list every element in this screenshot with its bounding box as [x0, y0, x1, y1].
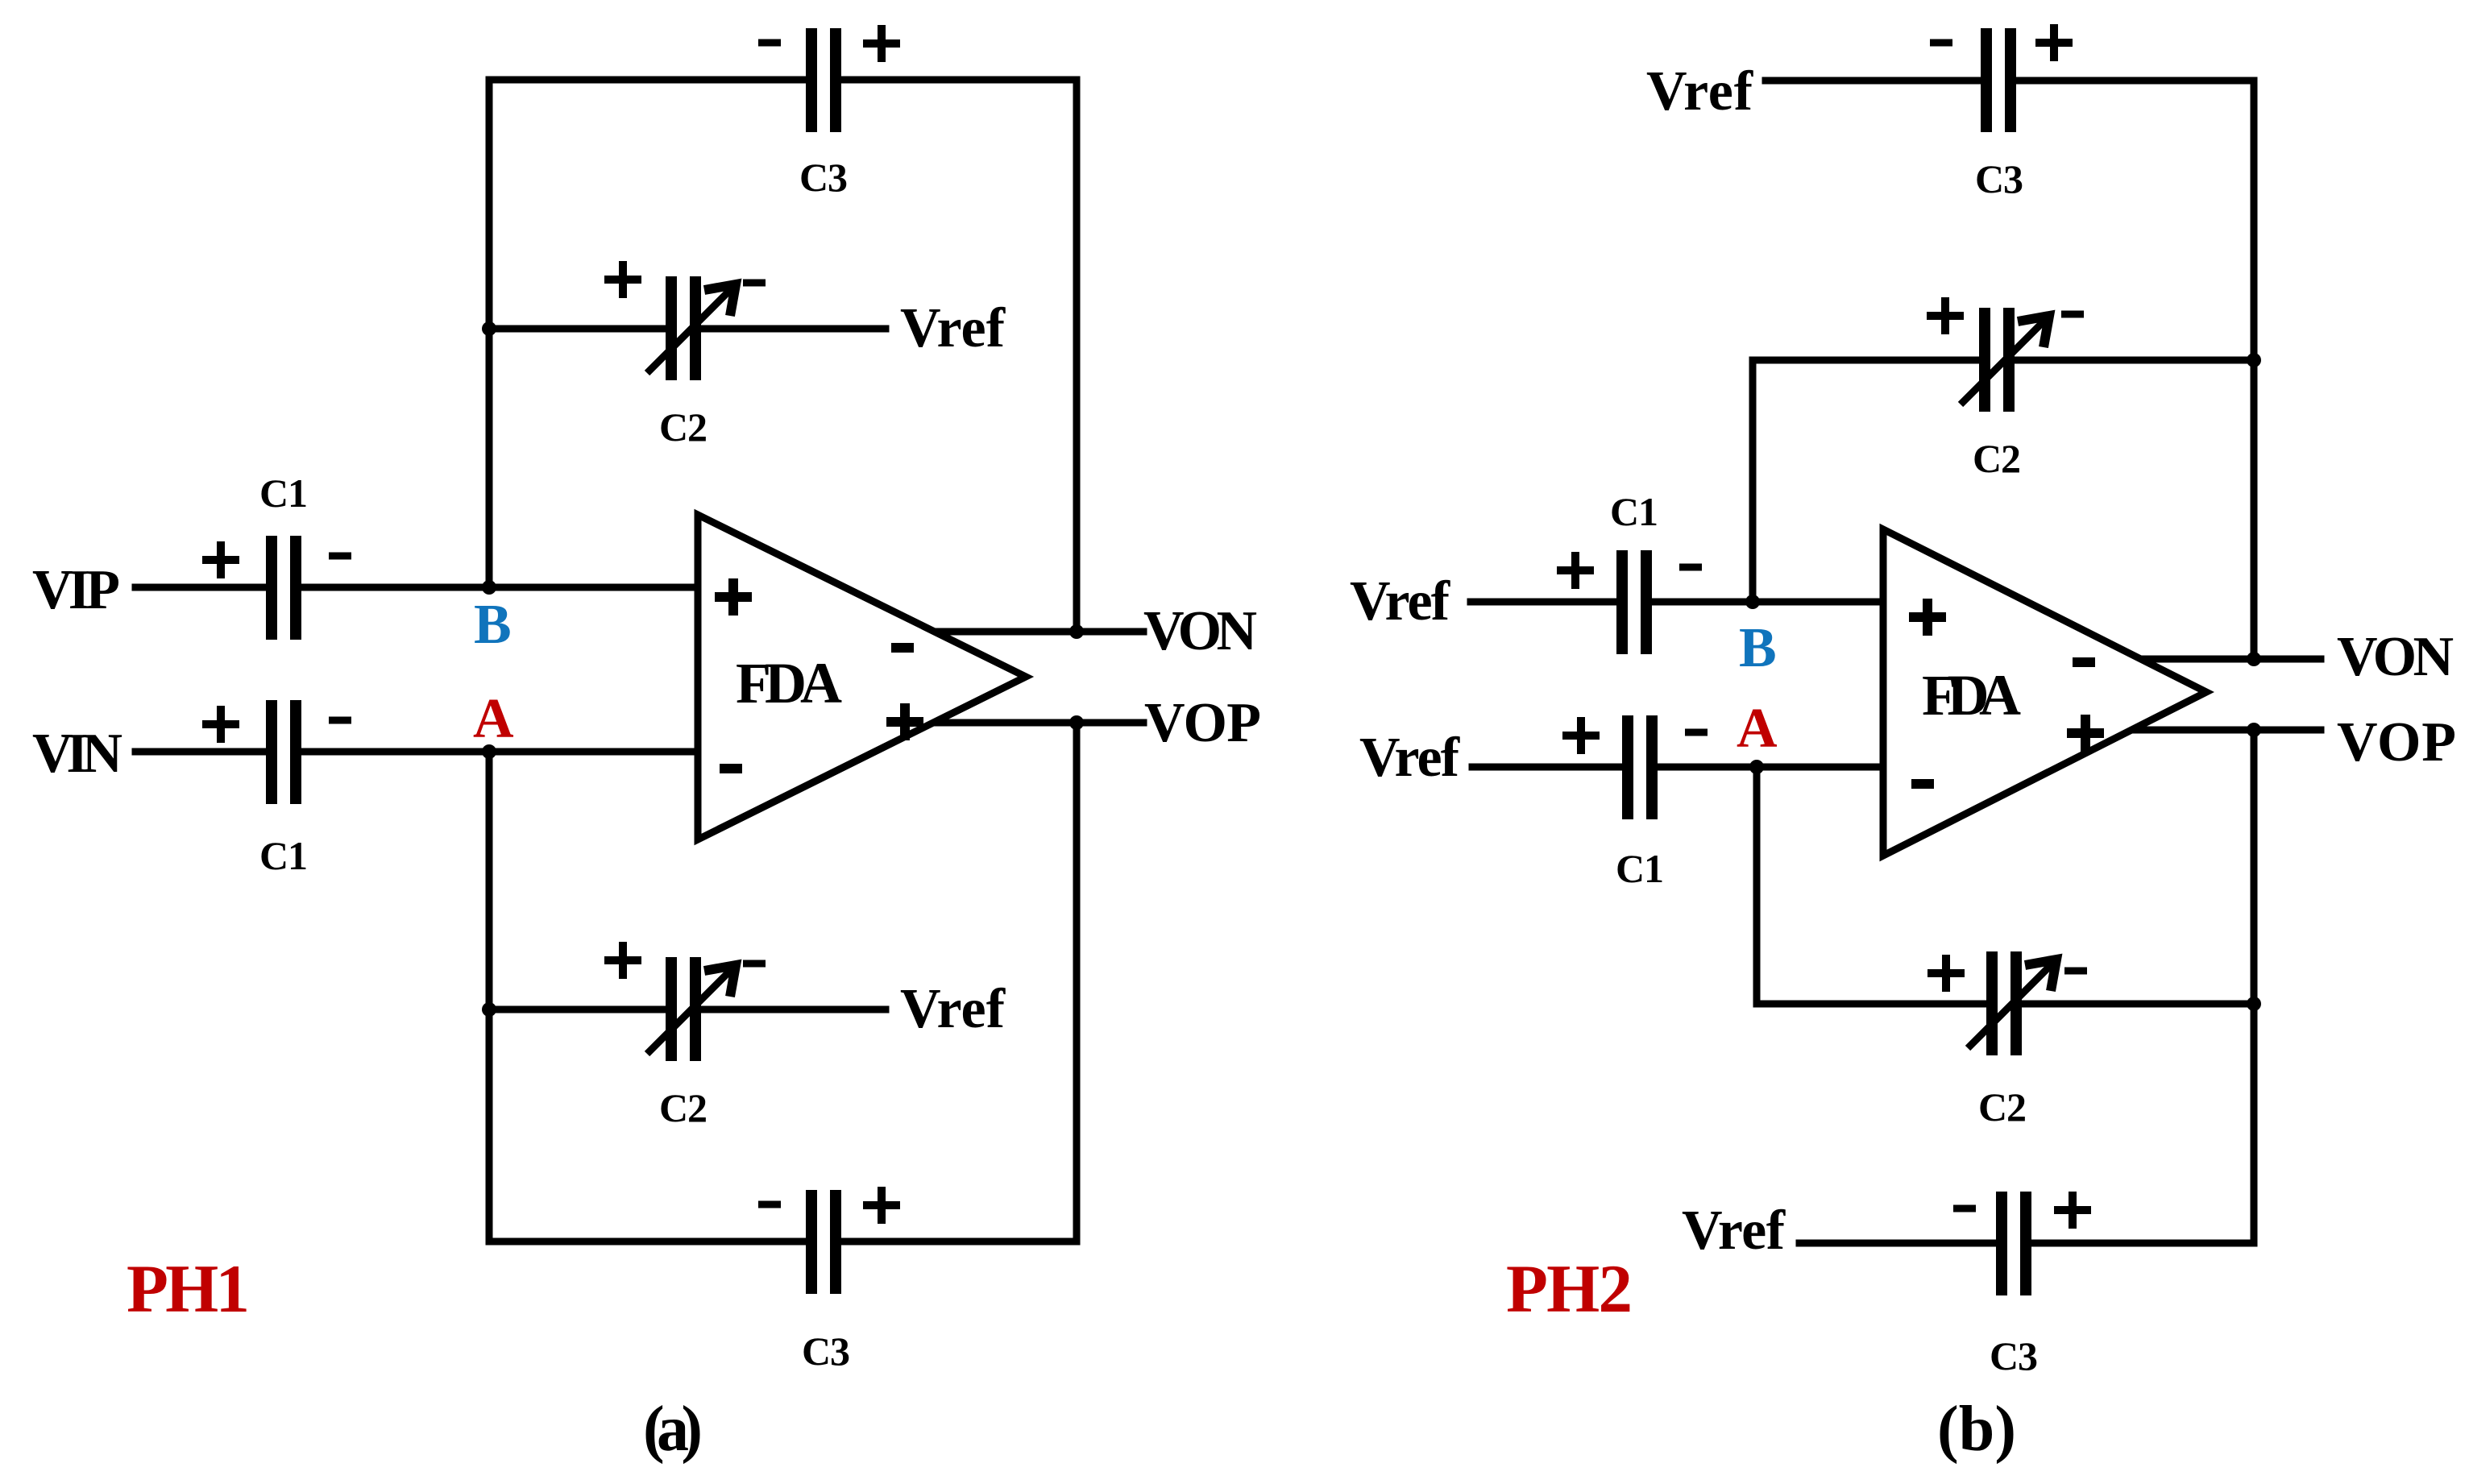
wire: fig-b lower C2 branch left of C2 [1757, 1001, 1993, 1008]
wire: fig-a top feedback wire left of C3 [489, 77, 812, 84]
wire: fig-b lower C2 branch right of C2 [2015, 1001, 2254, 1008]
node: fig-b junction dot lower C2 branch on right rail [2247, 997, 2261, 1011]
polarity + of C3 bottom (fig a) [863, 1187, 900, 1224]
polarity - of C2 top (fig b) [2061, 311, 2084, 318]
polarity + of C2 bottom (fig a) [604, 942, 641, 979]
polarity + of C1 upper (fig a) [202, 541, 239, 578]
polarity + of C3 top (fig a) [863, 25, 900, 62]
polarity + of C2 top (fig a) [604, 261, 641, 298]
svg-text:A: A [473, 688, 514, 750]
wire: fig-b upper C2 branch right of C2 [2008, 357, 2254, 364]
pin label - (fig a FDA inverting input) [720, 764, 742, 773]
capacitor C2 variable (fig a, lower Vref branch) [647, 957, 736, 1061]
svg-text:Vref: Vref [1682, 1200, 1786, 1262]
op-amp U1 FDA (fig a) [698, 515, 1026, 839]
polarity - of C3 top (fig a) [758, 39, 781, 47]
node: fig-a junction dot VOP on right rail [1069, 715, 1084, 730]
svg-text:VIN: VIN [32, 723, 122, 785]
svg-text:FDA: FDA [1922, 663, 2021, 727]
polarity + of C3 top (fig b) [2035, 24, 2073, 61]
node A junction dot (fig a) [482, 744, 496, 759]
polarity + of C1 lower (fig b) [1562, 717, 1600, 754]
svg-text:(a): (a) [643, 1394, 703, 1465]
node: fig-b junction dot VOP on right rail [2247, 723, 2261, 737]
wire: fig-b stub from node A down to lower C2 branch [1753, 767, 1761, 1004]
capacitor C3 (fig b, bottom Vref branch) [1996, 1192, 2031, 1295]
capacitor C3 (fig b, top Vref branch) [1981, 28, 2016, 132]
wire: fig-a upper Vref branch right of C2 [695, 325, 886, 333]
polarity - of C1 lower (fig b) [1685, 729, 1708, 736]
wire: fig-a VON output wire [935, 628, 1143, 636]
svg-text:VON: VON [1143, 600, 1257, 662]
capacitor C3 (fig a, bottom feedback) [806, 1190, 841, 1294]
svg-text:C3: C3 [802, 1329, 850, 1374]
wire: fig-a VIN input wire left of C1 [135, 748, 272, 756]
svg-text:C2: C2 [1973, 436, 2021, 481]
wire: fig-a lower Vref branch right of C2 [695, 1006, 886, 1014]
svg-text:C2: C2 [659, 404, 708, 450]
wire: fig-b Vref input wire (B row) from C1 to FDA + input [1645, 599, 1883, 606]
svg-text:VON: VON [2337, 626, 2454, 688]
wire: fig-b Vref input wire (A row) from C1 to FDA - input [1651, 764, 1883, 771]
polarity + of C1 lower (fig a) [202, 706, 239, 743]
capacitor C1 (fig a, VIP input) [266, 536, 301, 640]
node: fig-a junction dot lower Vref branch on left rail [482, 1002, 496, 1017]
node: fig-b junction dot VON on right rail [2247, 652, 2261, 666]
polarity + of C2 bottom (fig b) [1927, 955, 1965, 992]
polarity - of C3 bottom (fig b) [1953, 1205, 1976, 1212]
wire: fig-b bottom Vref wire right of C3 [2025, 1240, 2254, 1247]
wire: fig-a VIP input wire from C1 to FDA + input [295, 584, 698, 591]
pin label - (fig b FDA negative output) [2073, 657, 2095, 667]
pin label + (fig a FDA positive output) [886, 703, 923, 740]
wire: fig-b top Vref wire left of C3 [1766, 77, 1987, 85]
polarity + of C3 bottom (fig b) [2054, 1192, 2091, 1229]
wire: fig-a left rail upper segment (node B up to top wire) [486, 80, 493, 587]
svg-text:C1: C1 [259, 833, 308, 878]
wire: fig-a bottom feedback wire right of C3 [835, 1238, 1077, 1246]
wire: fig-b bottom Vref wire left of C3 [1799, 1240, 2002, 1247]
wire: fig-b right rail upper segment (top wire down to VON) [2251, 81, 2258, 659]
wire: fig-b top Vref wire right of C3 [2010, 77, 2254, 85]
node: fig-a junction dot VON on right rail [1069, 624, 1084, 639]
svg-text:C3: C3 [799, 155, 848, 200]
op-amp U2 FDA (fig b) [1883, 529, 2206, 856]
svg-text:VIP: VIP [32, 559, 120, 621]
svg-text:A: A [1737, 698, 1778, 760]
svg-text:(b): (b) [1937, 1394, 2016, 1465]
wire: fig-a right rail upper segment (top wire down to VON) [1073, 80, 1081, 632]
node B junction dot (fig b) [1745, 595, 1760, 609]
capacitor C1 (fig b, A row input) [1622, 715, 1658, 819]
pin label + (fig a FDA noninverting input) [715, 578, 752, 616]
svg-text:C3: C3 [1975, 156, 2023, 201]
capacitor C2 variable (fig a, upper Vref branch) [647, 276, 736, 380]
wire: fig-a top feedback wire right of C3 [835, 77, 1077, 84]
svg-text:C3: C3 [1990, 1333, 2038, 1378]
node: fig-b junction dot upper C2 branch on right rail [2247, 353, 2261, 367]
polarity - of C1 upper (fig b) [1679, 564, 1702, 571]
svg-text:Vref: Vref [1646, 60, 1753, 122]
pin label + (fig b FDA positive output) [2067, 715, 2104, 752]
svg-text:B: B [474, 594, 512, 656]
polarity - of C2 bottom (fig a) [743, 960, 766, 968]
wire: fig-a lower Vref branch left of C2 [489, 1006, 672, 1014]
capacitor C2 variable (fig b, lower branch) [1968, 951, 2056, 1055]
polarity - of C2 bottom (fig b) [2064, 968, 2087, 975]
svg-text:C1: C1 [1616, 846, 1664, 891]
polarity + of C1 upper (fig b) [1557, 552, 1594, 589]
svg-text:PH1: PH1 [127, 1251, 250, 1327]
pin label + (fig b FDA noninverting input) [1909, 599, 1946, 636]
wire: fig-a VIP input wire left of C1 [135, 584, 272, 591]
capacitor C1 (fig b, B row input) [1616, 550, 1652, 654]
svg-text:C2: C2 [659, 1085, 708, 1130]
svg-text:FDA: FDA [736, 651, 842, 715]
wire: fig-b right rail lower segment (VOP down to bottom C3 wire) [2251, 730, 2258, 1243]
wire: fig-a bottom feedback wire left of C3 [489, 1238, 812, 1246]
wire: fig-a right rail lower segment (VOP down to bottom wire) [1073, 723, 1081, 1242]
polarity - of C3 top (fig b) [1930, 39, 1952, 47]
svg-text:C2: C2 [1978, 1084, 2027, 1130]
svg-text:VOP: VOP [2337, 711, 2456, 773]
polarity - of C3 bottom (fig a) [758, 1201, 781, 1208]
polarity - of C1 upper (fig a) [329, 553, 351, 560]
wire: fig-b upper C2 branch left of C2 [1753, 357, 1986, 364]
svg-text:VOP: VOP [1144, 692, 1261, 754]
svg-text:Vref: Vref [1350, 570, 1450, 632]
wire: fig-a VOP output wire [933, 719, 1143, 727]
pin label - (fig b FDA inverting input) [1911, 779, 1934, 789]
pin label - (fig a FDA negative output) [891, 643, 914, 653]
svg-text:Vref: Vref [900, 978, 1006, 1040]
wire: fig-b VOP output wire [2131, 727, 2321, 734]
capacitor C1 (fig a, VIN input) [266, 700, 301, 804]
wire: fig-a VIN input wire from C1 to FDA - input [295, 748, 698, 756]
capacitor C2 variable (fig b, upper branch) [1961, 308, 2049, 412]
capacitor C3 (fig a, top feedback) [806, 28, 841, 132]
wire: fig-b Vref input wire (B row) left of C1 [1471, 599, 1623, 606]
node B junction dot (fig a) [482, 580, 496, 595]
wire: fig-b stub from node B up to upper C2 branch [1749, 360, 1757, 602]
polarity - of C2 top (fig a) [743, 280, 766, 287]
svg-text:C1: C1 [259, 470, 308, 516]
wire: fig-a left rail lower segment (node A down to bottom wire) [486, 752, 493, 1242]
svg-text:Vref: Vref [1359, 727, 1460, 789]
polarity - of C1 lower (fig a) [329, 717, 351, 724]
wire: fig-b VON output wire [2141, 656, 2321, 663]
node A junction dot (fig b) [1749, 760, 1764, 774]
wire: fig-a upper Vref branch left of C2 [489, 325, 672, 333]
svg-text:C1: C1 [1610, 489, 1658, 534]
svg-text:Vref: Vref [900, 297, 1006, 359]
svg-text:B: B [1739, 617, 1777, 679]
svg-text:PH2: PH2 [1506, 1251, 1633, 1327]
polarity + of C2 top (fig b) [1927, 297, 1964, 334]
wire: fig-b Vref input wire (A row) left of C1 [1472, 764, 1629, 771]
node: fig-a junction dot upper Vref branch on left rail [482, 321, 496, 336]
